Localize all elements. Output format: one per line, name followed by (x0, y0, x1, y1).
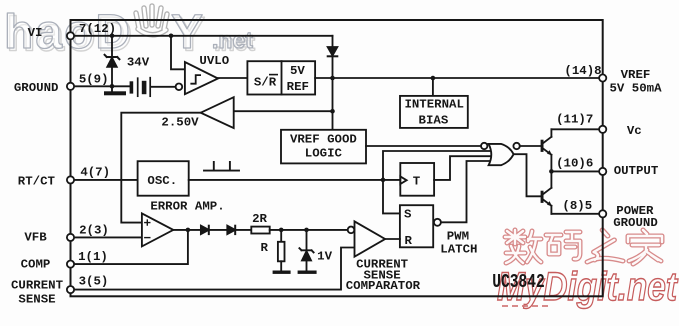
svg-text:OUTPUT: OUTPUT (614, 164, 659, 178)
zener 34V (105, 36, 120, 87)
node 2.5V tap junction (330, 109, 335, 114)
wire VI rail (71, 35, 333, 37)
svg-text:.net: .net (212, 27, 253, 53)
svg-text:T: T (413, 175, 421, 189)
battery reference (130, 78, 176, 97)
pin VI 7(12) (67, 32, 74, 39)
transistor Q1 top (541, 129, 552, 171)
wire clock to latch S (383, 180, 400, 214)
wire latch Q out (441, 161, 490, 222)
svg-text:INTERNAL: INTERNAL (404, 97, 464, 111)
wire 2.5V out to error amp (121, 113, 200, 223)
node VI-zener junction (110, 34, 115, 39)
svg-text:4(7): 4(7) (80, 166, 110, 180)
wire error amp out (173, 229, 201, 231)
svg-text:SENSE: SENSE (18, 293, 55, 307)
svg-text:7(12): 7(12) (79, 22, 116, 36)
svg-text:PWM: PWM (447, 230, 469, 244)
op-amp current sense comparator (348, 221, 385, 256)
wire power ground rail (551, 213, 602, 215)
pin RT/CT 4(7) (67, 176, 74, 183)
svg-text:OSC.: OSC. (147, 174, 177, 188)
svg-text:1V: 1V (317, 249, 332, 263)
block S/R + 5V REF (247, 61, 315, 94)
op-amp UVLO comparator (176, 62, 218, 94)
svg-text:LATCH: LATCH (440, 243, 477, 257)
pin CURRENT SENSE 3(5) (67, 286, 74, 293)
wire clock to gate input2 (383, 151, 490, 180)
svg-text:R: R (260, 241, 268, 255)
node clock junction (381, 178, 386, 183)
wire Vc rail (551, 128, 602, 130)
svg-text:3(5): 3(5) (79, 275, 109, 289)
wire gate bubble out to top base (520, 145, 541, 147)
op-amp 2.50V reference buffer (201, 97, 234, 128)
clock waveform symbol (204, 162, 239, 171)
wire T out to gate input3 (434, 156, 490, 180)
zener 1V (299, 230, 313, 271)
svg-text:GROUND: GROUND (613, 216, 658, 230)
svg-text:VREF GOOD: VREF GOOD (290, 133, 357, 147)
node VREF-bias junction (431, 76, 436, 81)
svg-text:RT/CT: RT/CT (18, 175, 56, 189)
wire internal bias riser (432, 78, 434, 96)
watermark hand glyph (136, 6, 167, 35)
svg-text:S/R: S/R (254, 76, 277, 90)
pin Vc (11)7 (599, 126, 606, 133)
wire ground rail (71, 85, 130, 87)
svg-text:34V: 34V (127, 56, 150, 70)
latch PWM S-R (400, 205, 433, 247)
svg-text:5(9): 5(9) (79, 72, 109, 86)
resistor 2R (251, 227, 269, 234)
wire 2R to comparator (270, 229, 348, 231)
wire VREF branch corner (332, 36, 334, 47)
node latch output bubble (434, 219, 441, 226)
pin VREF (14)8 (599, 74, 606, 81)
svg-text:LOGIC: LOGIC (305, 147, 343, 161)
block OSC (138, 161, 189, 196)
diode D3 (227, 226, 251, 234)
wire COMP to error amp out (71, 230, 188, 264)
wire VFB input (71, 236, 142, 238)
svg-text:2R: 2R (252, 212, 267, 226)
svg-text:VREF: VREF (621, 68, 651, 82)
wire 2.5V input (234, 110, 333, 112)
svg-text:2.50V: 2.50V (161, 116, 199, 130)
svg-text:(8)5: (8)5 (562, 199, 592, 213)
svg-text:2(3): 2(3) (79, 224, 109, 238)
node VREF-diode junction (330, 76, 335, 81)
diode D2 (201, 226, 227, 234)
pin COMP 1(1) (67, 261, 74, 268)
svg-text:BIAS: BIAS (419, 113, 449, 127)
svg-text:Vc: Vc (627, 124, 642, 138)
svg-text:S: S (404, 208, 412, 222)
ground under zener (298, 271, 317, 274)
svg-text:VFB: VFB (24, 231, 47, 245)
node zener junction (304, 228, 309, 233)
ground symbol (104, 86, 126, 95)
node VI-UVLO junction (169, 34, 174, 39)
svg-text:Y: Y (171, 6, 203, 59)
wire comparator to R latch (385, 238, 400, 240)
wire OUTPUT rail (551, 170, 602, 172)
svg-text:(14)8: (14)8 (564, 64, 601, 78)
wire VREF rail (315, 77, 603, 79)
svg-text:GROUND: GROUND (14, 81, 59, 95)
svg-text:REF: REF (287, 80, 309, 94)
resistor R (278, 230, 285, 271)
ground under R (273, 271, 291, 274)
node ground junction (110, 84, 115, 89)
block VREF GOOD LOGIC (281, 130, 366, 164)
watermark 数码之家 (505, 230, 662, 264)
diode D1 (VI to VREF rail) (328, 47, 338, 78)
wire OSC to T clock (189, 179, 401, 181)
node comp junction (186, 228, 191, 233)
wire UVLO riser (171, 36, 185, 70)
wire current sense input (71, 248, 355, 290)
wire gate apex out to bottom base (514, 154, 541, 196)
svg-text:UC3842: UC3842 (492, 272, 545, 293)
svg-text:(11)7: (11)7 (556, 113, 593, 127)
svg-text:VI: VI (28, 26, 43, 40)
watermark url dashes (502, 305, 548, 307)
svg-text:UVLO: UVLO (199, 54, 229, 68)
block INTERNAL BIAS (400, 96, 468, 128)
svg-text:CURRENT: CURRENT (11, 279, 64, 293)
wire UVLO out (218, 77, 247, 79)
wire vref-good to gate (366, 145, 481, 147)
pin GROUND 5(9) (67, 83, 74, 90)
flip-flop T (400, 163, 434, 196)
svg-text:1(1): 1(1) (78, 250, 108, 264)
wire RT/CT to OSC (71, 179, 138, 181)
svg-text:COMPARATOR: COMPARATOR (346, 279, 421, 293)
svg-text:COMP: COMP (21, 258, 51, 272)
node output junction (549, 169, 554, 174)
wire VREF down to logic (332, 78, 334, 130)
outer border box (71, 20, 603, 296)
node R junction (279, 228, 284, 233)
pin VFB 2(3) (67, 234, 74, 241)
gate NOR output stage (481, 143, 520, 165)
svg-text:ERROR AMP.: ERROR AMP. (150, 200, 224, 214)
svg-text:5V: 5V (290, 64, 305, 78)
watermark haoDIY.net (4, 6, 255, 61)
transistor Q2 bottom (541, 171, 552, 213)
pin POWER GROUND (8)5 (599, 210, 606, 217)
svg-text:5V 50mA: 5V 50mA (609, 81, 662, 95)
svg-text:R: R (404, 234, 412, 248)
op-amp error amplifier (142, 213, 173, 246)
pin OUTPUT (10)6 (599, 168, 606, 175)
svg-text:(10)6: (10)6 (556, 157, 593, 171)
